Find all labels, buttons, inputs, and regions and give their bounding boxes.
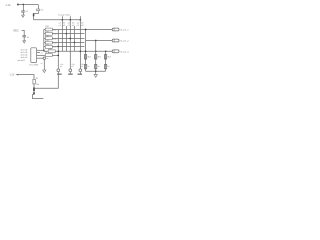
net flag stub rail6 xyxy=(79,16,81,20)
svg-text:10R: 10R xyxy=(45,31,49,33)
wire xyxy=(34,11,39,20)
svg-text:1k0: 1k0 xyxy=(53,29,56,31)
svg-text:p1: p1 xyxy=(60,66,62,68)
wire xyxy=(22,5,24,11)
ground xyxy=(94,75,97,78)
wire stub pin2 xyxy=(69,72,71,74)
net arrow xyxy=(16,74,19,76)
svg-text:p3: p3 xyxy=(81,66,83,68)
resistor R9 xyxy=(105,55,107,59)
pin P1 circle xyxy=(57,69,60,72)
svg-text:d1: d1 xyxy=(63,25,66,27)
ground xyxy=(43,70,46,73)
wire rail6 xyxy=(79,20,81,69)
net label below pin3 xyxy=(78,74,83,75)
capacitor C6 xyxy=(105,64,107,68)
node O junction xyxy=(95,70,97,72)
svg-text:3k3: 3k3 xyxy=(107,56,111,58)
wire row2 xyxy=(44,33,85,35)
IC U1 xyxy=(31,48,37,63)
net label below pin2 xyxy=(68,74,73,75)
wire U1 pin4 xyxy=(37,57,44,59)
svg-text:10R: 10R xyxy=(45,44,49,46)
wire Q1 drain xyxy=(35,72,59,89)
wire xyxy=(95,71,97,74)
wire xyxy=(19,4,38,6)
node I junction xyxy=(74,42,75,43)
pin P2 circle xyxy=(69,69,72,72)
wire rail7 xyxy=(85,30,87,72)
node C junction xyxy=(69,19,71,21)
wire row B xyxy=(86,40,113,42)
wire rail1 xyxy=(57,30,59,69)
wire rail5 xyxy=(73,26,75,51)
connector CN3 xyxy=(112,50,119,53)
wire bottom join xyxy=(86,70,106,72)
svg-text:1n: 1n xyxy=(87,66,89,68)
node G junction xyxy=(66,33,67,34)
svg-text:abc de21: abc de21 xyxy=(17,60,25,62)
svg-text:1.1V: 1.1V xyxy=(9,74,14,77)
node D junction xyxy=(80,19,82,21)
wire row3 xyxy=(44,37,85,39)
svg-text:REG: REG xyxy=(13,29,18,32)
fuse F1 xyxy=(33,14,35,17)
wire rail2 xyxy=(61,20,63,52)
wire U1 pin2 xyxy=(37,52,40,54)
wire rail9 xyxy=(105,51,107,71)
svg-text:R9: R9 xyxy=(36,78,38,80)
wire xyxy=(23,37,25,41)
wire U1 pin3 xyxy=(37,54,46,56)
svg-text:3k3: 3k3 xyxy=(87,56,91,58)
wire bus top xyxy=(34,19,81,21)
svg-text:10k: 10k xyxy=(36,84,39,86)
svg-text:ab4 cd5: ab4 cd5 xyxy=(21,57,28,59)
capacitor C5 xyxy=(95,64,97,68)
wire xyxy=(22,30,25,35)
node P junction xyxy=(58,55,60,57)
node B junction xyxy=(62,19,64,21)
wire xyxy=(52,54,58,56)
wire U1 pin1 xyxy=(37,49,44,51)
svg-text:1n: 1n xyxy=(98,66,100,68)
resistor R8 xyxy=(95,55,97,59)
pin P3 circle xyxy=(79,69,82,72)
svg-text:1k0: 1k0 xyxy=(53,42,56,44)
svg-text:d2: d2 xyxy=(72,25,75,27)
node J junction xyxy=(58,46,60,48)
svg-text:d3: d3 xyxy=(81,25,84,27)
svg-text:c1: c1 xyxy=(59,25,62,27)
connector CN2 xyxy=(112,39,119,42)
wire xyxy=(33,84,35,88)
ground xyxy=(23,41,26,43)
capacitor C2 xyxy=(22,36,26,37)
svg-text:p2: p2 xyxy=(72,66,74,68)
wire xyxy=(37,5,39,9)
node E junction xyxy=(43,50,45,52)
wire row1 xyxy=(44,29,112,31)
diode D1 xyxy=(37,9,40,11)
wire rail3 xyxy=(65,26,67,51)
wire xyxy=(22,12,24,15)
svg-text:D1: D1 xyxy=(41,10,45,12)
svg-text:10R: 10R xyxy=(45,40,49,42)
node F junction xyxy=(85,29,87,31)
wire row6 xyxy=(55,50,112,52)
wire Q1 source xyxy=(32,94,43,98)
svg-text:1k0: 1k0 xyxy=(53,33,56,35)
wire row5 xyxy=(44,46,85,48)
svg-text:1.1b: 1.1b xyxy=(5,3,11,7)
wire xyxy=(43,59,45,70)
svg-text:B_pin_2: B_pin_2 xyxy=(121,41,130,43)
node A junction xyxy=(23,4,25,6)
svg-text:Daisy Chain: Daisy Chain xyxy=(59,15,72,17)
svg-text:s1: s1 xyxy=(41,52,43,54)
svg-text:c3: c3 xyxy=(77,25,80,27)
node H junction xyxy=(70,38,72,40)
svg-text:10R: 10R xyxy=(45,35,49,37)
resistor R7 xyxy=(85,55,87,59)
transistor Q1 lower bar xyxy=(33,92,35,94)
node M junction xyxy=(105,50,107,52)
wire xyxy=(18,75,34,80)
node L junction xyxy=(95,50,97,52)
svg-text:1k0: 1k0 xyxy=(53,46,56,48)
wire row4 xyxy=(44,41,85,43)
svg-text:LTC 6803: LTC 6803 xyxy=(29,65,39,67)
net label below pin1 xyxy=(57,74,62,75)
svg-text:B_pin_1: B_pin_1 xyxy=(121,30,130,32)
svg-text:1k0: 1k0 xyxy=(53,38,56,40)
net flag stub rail4 xyxy=(69,16,71,20)
svg-text:1n: 1n xyxy=(107,66,109,68)
connector CN1 xyxy=(112,28,119,31)
svg-text:0.1: 0.1 xyxy=(25,11,29,13)
svg-text:B_pin_3: B_pin_3 xyxy=(121,51,130,53)
svg-text:nc: nc xyxy=(46,58,48,60)
wire stub pin3 xyxy=(79,72,81,74)
wire rail8 xyxy=(95,41,97,72)
svg-text:io: io xyxy=(41,63,42,65)
ground xyxy=(22,15,25,17)
node K junction xyxy=(85,50,87,52)
pin P4 circle xyxy=(43,57,45,59)
transistor Q1 xyxy=(33,87,35,91)
svg-text:3k3: 3k3 xyxy=(98,56,102,58)
net flag stub rail2 xyxy=(61,16,63,20)
svg-text:1u: 1u xyxy=(27,37,30,39)
node N junction xyxy=(95,40,97,42)
wire xyxy=(33,91,35,92)
wire left rail xyxy=(44,30,48,52)
terminal J1 xyxy=(17,4,19,6)
capacitor C1 xyxy=(21,11,25,12)
wire rail4 xyxy=(69,20,71,69)
capacitor C4 xyxy=(85,64,87,68)
